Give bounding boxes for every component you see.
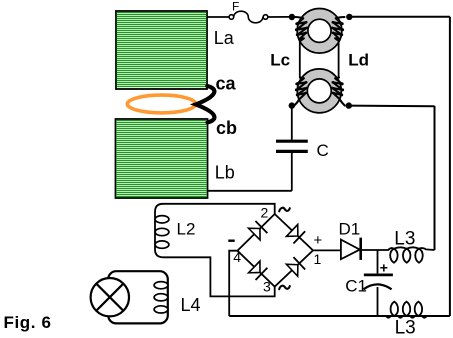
svg-text:L2: L2	[177, 220, 196, 239]
svg-text:La: La	[214, 28, 235, 48]
svg-text:3: 3	[263, 279, 271, 295]
svg-text:C1: C1	[345, 276, 367, 295]
svg-text:Fig. 6: Fig. 6	[4, 313, 52, 332]
svg-text:2: 2	[261, 204, 269, 220]
svg-text:4: 4	[233, 249, 241, 265]
svg-text:Lc: Lc	[270, 51, 290, 70]
svg-text:L3: L3	[395, 318, 416, 338]
svg-text:Ld: Ld	[348, 51, 369, 70]
svg-text:L4: L4	[181, 295, 201, 315]
svg-text:D1: D1	[339, 219, 361, 238]
svg-text:+: +	[380, 260, 388, 276]
svg-text:L3: L3	[394, 229, 415, 250]
svg-text:1: 1	[314, 251, 322, 267]
svg-text:F: F	[232, 0, 239, 14]
svg-text:C: C	[317, 141, 329, 160]
svg-text:+: +	[314, 232, 323, 249]
svg-text:cb: cb	[216, 118, 237, 138]
svg-text:Lb: Lb	[215, 163, 235, 183]
svg-text:ca: ca	[216, 73, 237, 93]
